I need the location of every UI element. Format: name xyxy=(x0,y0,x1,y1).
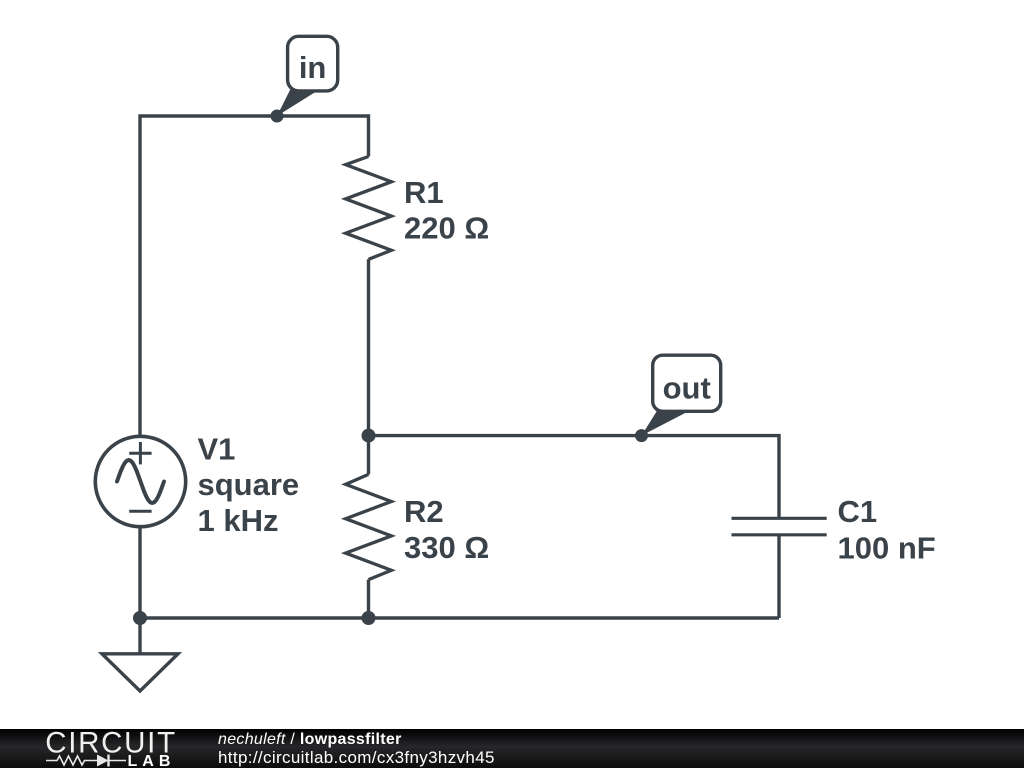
svg-text:330 Ω: 330 Ω xyxy=(404,530,489,565)
wire R2 leads xyxy=(367,436,370,618)
wire C1 bottom lead xyxy=(777,535,780,618)
wire V1 bottom to ground node xyxy=(138,528,141,618)
svg-text:R1: R1 xyxy=(404,175,444,210)
CircuitLab logo xyxy=(0,729,200,768)
svg-text:R2: R2 xyxy=(404,494,444,529)
capacitor C1 xyxy=(732,518,827,535)
svg-text:LAB: LAB xyxy=(128,753,176,768)
svg-text:C1: C1 xyxy=(838,494,878,529)
svg-text:in: in xyxy=(299,50,327,85)
footer bar xyxy=(0,729,1024,768)
label R1 value xyxy=(404,175,489,246)
ground xyxy=(102,618,178,691)
node out flag xyxy=(635,355,721,442)
node junction dot (ground net at V1) xyxy=(133,611,147,625)
resistor R1 xyxy=(346,157,392,260)
label V1 value xyxy=(198,432,300,538)
node junction dot (out net at R2 top) xyxy=(362,429,376,443)
wire top horizontal (in net) xyxy=(140,116,369,435)
wire middle horizontal (out net) xyxy=(369,436,780,518)
svg-text:220 Ω: 220 Ω xyxy=(404,211,489,246)
svg-text:V1: V1 xyxy=(198,432,236,467)
node junction dot (ground net at R2 bottom) xyxy=(362,611,376,625)
voltage source V1 xyxy=(95,436,185,526)
wire R1 bottom to out node xyxy=(367,259,370,435)
footer caption text xyxy=(218,731,495,768)
svg-text:square: square xyxy=(198,467,300,502)
svg-text:out: out xyxy=(663,371,711,406)
label C1 value xyxy=(838,494,936,565)
svg-text:1 kHz: 1 kHz xyxy=(198,503,279,538)
node in flag xyxy=(271,36,338,122)
resistor R2 xyxy=(346,474,392,579)
svg-text:100 nF: 100 nF xyxy=(838,530,936,565)
wire bottom horizontal (ground net) xyxy=(140,616,779,619)
label R2 value xyxy=(404,494,489,565)
